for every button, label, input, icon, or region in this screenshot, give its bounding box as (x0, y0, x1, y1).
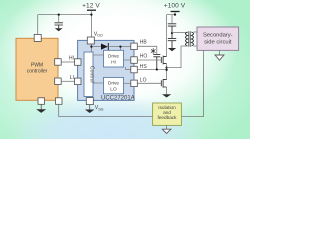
wire transformer primary bottom (181, 45, 188, 47)
secondary-side circuit box (197, 27, 239, 50)
pin box IC LO (131, 80, 138, 87)
pin box PWM bottom GND (38, 98, 45, 105)
svg-text:controller: controller (27, 69, 48, 75)
pin box PWM right 2 (LI out) (55, 78, 62, 85)
svg-text:HI: HI (111, 60, 116, 66)
node bootstrap junction dot (156, 68, 158, 70)
pin box IC VDD (87, 37, 94, 44)
ground (under C4) (168, 48, 176, 51)
PWM controller U2 box (16, 38, 58, 100)
svg-text:VDD: VDD (94, 31, 103, 37)
pin box PWM top (VCC) (34, 34, 41, 41)
ground (isolation, open triangle) (162, 129, 171, 133)
capacitor C2 bootstrap (153, 55, 160, 70)
svg-text:HO: HO (140, 54, 148, 60)
node divider junction dot (171, 32, 173, 34)
svg-text:Secondary-: Secondary- (203, 33, 233, 39)
pin box PWM bottom FB (56, 98, 63, 105)
node VDD junction dot (90, 46, 92, 48)
wire transformer secondary top (193, 31, 197, 33)
pin box IC HI (75, 59, 82, 66)
svg-text:side circuit: side circuit (204, 40, 232, 46)
wire control to drive LO (93, 82, 104, 84)
node +100V junction dot (174, 13, 176, 15)
wire LI (PWM to IC) (61, 80, 74, 82)
ground (under PWM) (36, 104, 46, 113)
svg-text:HB: HB (140, 40, 148, 46)
wire feedback (PWM FB to isolation box) (59, 104, 153, 116)
node diode out junction dot (119, 46, 121, 48)
wire drive HI to HO pin (124, 59, 131, 61)
pin box IC VSS (86, 98, 93, 105)
wire HI (PWM to IC) (61, 61, 74, 63)
svg-text:UCC27201A: UCC27201A (101, 96, 135, 102)
capacitor C3 (bulk upper) (168, 24, 176, 33)
svg-text:Control: Control (89, 66, 95, 83)
wire secondary gnd stub (219, 50, 221, 55)
svg-text:+100 V: +100 V (164, 2, 186, 9)
node switch junction dot 2 (166, 69, 168, 71)
wire Q1 source to switch node (166, 64, 168, 80)
pin box PWM right 1 (HI out) (55, 59, 62, 65)
capacitor C4 (bulk lower) (168, 33, 176, 48)
transformer T1 (186, 31, 194, 47)
wire HS to switch node (137, 69, 166, 71)
node A junction dot +12V (90, 13, 92, 15)
wire VDD internal (91, 44, 130, 52)
ground (under VSS) (85, 105, 95, 113)
wire LO to low FET gate (137, 82, 161, 84)
drive LO block (104, 77, 124, 93)
svg-text:+12 V: +12 V (82, 2, 100, 9)
svg-text:LO: LO (140, 77, 147, 83)
wire drive LO to LO pin (124, 82, 131, 84)
wire drive HI to HS pin (126, 67, 131, 70)
pin box IC HS (131, 66, 138, 73)
transistor Q2 low-side MOSFET (161, 79, 166, 88)
wire secondary to isolation box (181, 50, 203, 116)
ground (under Q2) (162, 94, 171, 97)
transistor Q1 high-side MOSFET (161, 56, 166, 65)
svg-text:feedback: feedback (157, 115, 177, 120)
svg-text:Drive: Drive (108, 80, 120, 86)
svg-text:HS: HS (140, 64, 148, 70)
wire transformer secondary bottom (193, 45, 197, 47)
capacitor C1 (12V bypass) (55, 23, 64, 28)
ground (under C1) (55, 28, 63, 31)
svg-text:Drive: Drive (108, 54, 120, 60)
pin box IC LI (75, 78, 82, 85)
node B junction dot cap (58, 13, 60, 15)
wire +100V rail (167, 15, 175, 24)
supply +12 V terminal (82, 2, 100, 10)
wire isolation gnd stub (166, 125, 168, 129)
wire switch node to transformer (167, 46, 181, 68)
svg-text:LI: LI (70, 75, 74, 81)
wire divider to transformer (172, 32, 188, 34)
svg-text:PWM: PWM (31, 63, 43, 69)
control block (84, 52, 95, 97)
svg-text:VSS: VSS (95, 105, 104, 111)
isolation and feedback box (153, 103, 182, 125)
wire HO to high FET gate (137, 59, 161, 61)
wire control to drive HI (93, 54, 104, 56)
svg-text:LO: LO (110, 86, 117, 92)
svg-text:HI: HI (69, 56, 74, 62)
node switch junction dot 1 (166, 67, 168, 69)
star marker (bootstrap cap note) (151, 48, 156, 53)
pin box IC HO (131, 57, 138, 64)
pin box IC HB (131, 43, 138, 50)
wire Q1 drain to +100V (166, 15, 168, 57)
wire HB to bootstrap cap (137, 46, 157, 54)
wire +12V rail (38, 11, 92, 37)
supply +100 V terminal (164, 2, 186, 14)
wire Q2 source to ground (166, 87, 168, 94)
ground (secondary, open triangle) (215, 55, 224, 60)
IC U1 UCC27201A body (78, 40, 134, 100)
drive HI block (104, 50, 124, 67)
diode D1 (101, 43, 108, 50)
